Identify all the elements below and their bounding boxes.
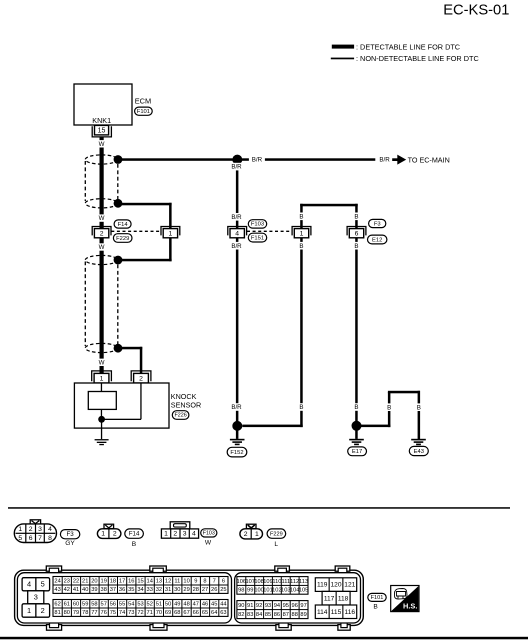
svg-text:41: 41 [73, 587, 79, 593]
svg-text:26: 26 [211, 587, 217, 593]
knock sensor pin 1 box [94, 373, 109, 383]
svg-text:39: 39 [91, 587, 97, 593]
svg-text:114: 114 [317, 609, 328, 616]
svg-text:48: 48 [183, 602, 189, 608]
svg-text:SENSOR: SENSOR [171, 401, 201, 410]
svg-text:40: 40 [82, 587, 88, 593]
svg-text:42: 42 [64, 587, 70, 593]
svg-text:W: W [99, 359, 105, 366]
svg-text:2: 2 [100, 230, 104, 237]
svg-text:2: 2 [113, 531, 117, 538]
shield ellipse top of lower section [85, 255, 117, 264]
svg-text:73: 73 [128, 610, 134, 616]
dashed link connector 2 to connector 1 [111, 230, 161, 232]
svg-text:95: 95 [283, 603, 289, 609]
svg-text:45: 45 [211, 602, 217, 608]
svg-text:B/R: B/R [231, 404, 242, 411]
svg-text:77: 77 [91, 610, 97, 616]
connector oval F101 at ECM [135, 107, 153, 115]
connector view F103 4-pin [161, 522, 198, 538]
svg-text:W: W [99, 215, 105, 222]
svg-text:6: 6 [355, 230, 359, 237]
svg-text:110: 110 [272, 579, 281, 585]
svg-text:64: 64 [211, 610, 217, 616]
svg-text:34: 34 [137, 587, 143, 593]
svg-text:50: 50 [165, 602, 171, 608]
svg-text:11: 11 [174, 579, 180, 585]
svg-text:H.S.: H.S. [403, 602, 417, 611]
svg-text:18: 18 [110, 579, 116, 585]
ECM connector left grid upper rows 24-6 43-25 [53, 577, 228, 594]
svg-text:87: 87 [283, 612, 289, 618]
svg-text:33: 33 [147, 587, 153, 593]
svg-text:25: 25 [220, 587, 226, 593]
ECM pin 15 box [95, 125, 109, 134]
svg-text:111: 111 [281, 579, 290, 585]
svg-text:EC-KS-01: EC-KS-01 [443, 3, 509, 19]
svg-text:2: 2 [29, 526, 33, 533]
svg-text:1: 1 [255, 531, 259, 538]
svg-text:70: 70 [156, 610, 162, 616]
svg-text:E12: E12 [372, 237, 382, 243]
ECM connector cell 3 [28, 591, 44, 604]
svg-text:112: 112 [290, 579, 299, 585]
title EC-KS-01 [443, 3, 509, 19]
svg-text:W: W [99, 141, 105, 148]
svg-text:22: 22 [73, 579, 79, 585]
svg-text:F229: F229 [270, 531, 283, 537]
svg-text:F151: F151 [251, 235, 264, 241]
svg-text:B: B [354, 243, 358, 250]
label W on thick wire 4 [97, 359, 107, 367]
svg-text:56: 56 [110, 602, 116, 608]
knock sensor internal wire junction to pin 2 [102, 383, 142, 420]
svg-text:52: 52 [147, 602, 153, 608]
label TO EC-MAIN [408, 155, 450, 164]
wire E17 junction to ground E43 [357, 391, 421, 440]
svg-text:98: 98 [238, 588, 244, 594]
svg-text:1: 1 [164, 531, 168, 538]
label B below connector 1 [298, 242, 306, 250]
svg-text:13: 13 [156, 579, 162, 585]
svg-text:B: B [299, 213, 303, 220]
svg-text:15: 15 [98, 127, 106, 134]
svg-text:B: B [373, 604, 378, 611]
wire W thick ECM to knock sensor pin 1 [100, 137, 104, 374]
svg-text:3: 3 [38, 526, 42, 533]
ECM pin 15 bracket [92, 126, 111, 137]
svg-text:GY: GY [65, 540, 75, 547]
ground oval E17 [348, 447, 367, 456]
connector 1 of F14/F229 [161, 227, 180, 238]
knock sensor element wire from pin 1 [101, 383, 102, 392]
svg-text:81: 81 [54, 610, 60, 616]
H.S. hand-symbol logo [391, 586, 419, 612]
label B/R before arrow [377, 155, 394, 164]
separator line [8, 507, 510, 509]
ground symbol E17 [349, 426, 364, 445]
svg-text:B: B [299, 243, 303, 250]
ECM connector shell top tab 2 [150, 566, 167, 573]
svg-text:7: 7 [213, 579, 216, 585]
oval F151 [248, 233, 266, 242]
legend detectable line sample [332, 45, 354, 49]
svg-text:9: 9 [194, 579, 197, 585]
svg-text:F3: F3 [66, 531, 74, 538]
label B above F152 junction [298, 403, 306, 411]
ECM connector cells 114 115 116 [315, 605, 356, 619]
wire shield tie to connector 1 [118, 203, 172, 229]
svg-text:84: 84 [256, 612, 262, 618]
svg-text:99: 99 [247, 588, 253, 594]
svg-text:2: 2 [139, 375, 143, 382]
svg-text:F152: F152 [230, 450, 243, 456]
svg-text:117: 117 [324, 595, 335, 602]
svg-text:B: B [354, 213, 358, 220]
svg-text:113: 113 [299, 579, 308, 585]
label B/R above connector 4 [230, 213, 244, 221]
KNK1 pin name [92, 116, 111, 125]
svg-text:43: 43 [54, 587, 60, 593]
label W on thick wire 2 [97, 214, 107, 222]
wire lower shield to knock sensor pin 2 [118, 347, 142, 374]
label B wire color F14 [132, 541, 137, 548]
svg-text:1: 1 [100, 375, 104, 382]
oval F101 view label [368, 593, 386, 601]
svg-text:17: 17 [119, 579, 125, 585]
svg-text:1: 1 [300, 230, 304, 237]
svg-text:61: 61 [64, 602, 70, 608]
label B above connector 6 [353, 213, 361, 221]
ECM connector left shell inner [17, 573, 231, 623]
svg-text:83: 83 [247, 612, 253, 618]
svg-text:37: 37 [110, 587, 116, 593]
label B on E43 branch right [415, 403, 423, 411]
svg-text:119: 119 [317, 582, 328, 589]
ECM connector right grid upper rows 106-113 98-105 [237, 577, 309, 595]
svg-text:2: 2 [244, 531, 248, 538]
svg-text:74: 74 [119, 610, 125, 616]
ECM connector cells 1 2 [22, 604, 49, 617]
label B above ground E17 [353, 403, 361, 411]
ground oval F152 [227, 447, 247, 457]
connector 2 of F14/F229 [92, 227, 111, 238]
ECM connector shell bottom tab 1 [47, 623, 62, 631]
svg-text:63: 63 [220, 610, 226, 616]
svg-text:1: 1 [18, 526, 22, 533]
ground symbol E43 [411, 439, 426, 445]
svg-text:120: 120 [330, 582, 341, 589]
svg-text:F103: F103 [203, 531, 215, 537]
oval F14 [114, 220, 131, 228]
junction dot shield lower-top [114, 256, 123, 265]
ECM connector cells 119 120 121 [315, 578, 356, 592]
knock sensor pin 2 bracket [131, 371, 151, 381]
svg-text:44: 44 [220, 602, 226, 608]
connector view F3 8-pin [14, 520, 56, 543]
svg-text:F226: F226 [174, 413, 186, 419]
svg-text:71: 71 [147, 610, 153, 616]
svg-text:20: 20 [91, 579, 97, 585]
svg-text:1: 1 [101, 531, 105, 538]
ECM connector shell bottom tab 3 [276, 623, 291, 631]
svg-text:10: 10 [183, 579, 189, 585]
svg-text:89: 89 [300, 612, 306, 618]
svg-text:32: 32 [156, 587, 162, 593]
svg-text:68: 68 [174, 610, 180, 616]
svg-text:31: 31 [165, 587, 171, 593]
svg-text:116: 116 [345, 609, 356, 616]
svg-text:19: 19 [101, 579, 107, 585]
svg-text:21: 21 [82, 579, 88, 585]
svg-text:115: 115 [331, 609, 342, 616]
ECM label [135, 96, 151, 105]
svg-text:F101: F101 [371, 595, 384, 601]
svg-text:29: 29 [183, 587, 189, 593]
svg-text:B: B [354, 404, 358, 411]
svg-text:16: 16 [128, 579, 134, 585]
knock sensor internal wire to case ground [101, 419, 102, 439]
svg-text:B/R: B/R [231, 214, 242, 221]
svg-text:51: 51 [156, 602, 162, 608]
knock sensor pin 1 bracket [92, 371, 112, 381]
wire B/R shield junction to EC-MAIN [118, 158, 375, 161]
svg-text:B: B [299, 404, 303, 411]
svg-text:B: B [417, 404, 421, 411]
svg-text:23: 23 [64, 579, 70, 585]
svg-text:ECM: ECM [135, 96, 151, 105]
svg-text:65: 65 [202, 610, 208, 616]
wire bracket over connectors 1 and 6 [300, 204, 358, 229]
svg-text:91: 91 [247, 603, 253, 609]
svg-text:E17: E17 [352, 449, 362, 455]
oval F14 view label [125, 529, 144, 538]
svg-text:4: 4 [27, 580, 31, 589]
svg-text:KNK1: KNK1 [92, 116, 111, 125]
svg-text:L: L [274, 541, 278, 548]
svg-text:B/R: B/R [252, 157, 263, 164]
svg-text:79: 79 [73, 610, 79, 616]
knock sensor box [74, 383, 169, 428]
knock sensor element box [88, 392, 116, 410]
shield cylinder upper dashed side left [84, 161, 86, 201]
svg-text:80: 80 [64, 610, 70, 616]
svg-text:67: 67 [183, 610, 189, 616]
dashed link connector 4 to connector 1 right [247, 230, 292, 232]
svg-text:62: 62 [54, 602, 60, 608]
svg-text:24: 24 [54, 579, 60, 585]
ground oval E43 [409, 446, 428, 455]
oval F103 [248, 220, 266, 228]
svg-text:60: 60 [73, 602, 79, 608]
knock sensor internal wire element to junction [101, 409, 102, 419]
ECM connector shell top tab 3 [275, 566, 290, 573]
wire B connector 1 to F152 junction [242, 238, 302, 427]
ground symbol knock sensor [95, 439, 109, 445]
connector 4 of F103/F151 [228, 227, 247, 238]
wire B connector 6 to ground E17 [355, 238, 358, 426]
svg-text:88: 88 [292, 612, 298, 618]
svg-text:55: 55 [119, 602, 125, 608]
svg-text:14: 14 [147, 579, 153, 585]
svg-text:6: 6 [222, 579, 225, 585]
svg-text:6: 6 [29, 535, 33, 542]
label B wire color F101 [373, 604, 378, 611]
svg-text:36: 36 [119, 587, 125, 593]
svg-text:15: 15 [137, 579, 143, 585]
svg-text:TO EC-MAIN: TO EC-MAIN [408, 155, 450, 164]
junction dot B/R tap [232, 155, 242, 165]
svg-text:F14: F14 [129, 531, 140, 538]
svg-text:92: 92 [256, 603, 262, 609]
label B/R on EC-MAIN line [249, 155, 265, 163]
svg-text:7: 7 [38, 535, 42, 542]
svg-text:57: 57 [101, 602, 107, 608]
arrow to EC-MAIN [392, 155, 406, 165]
svg-text:96: 96 [292, 603, 298, 609]
ECM connector left grid lower rows 62-44 81-63 [53, 600, 228, 617]
connector view F229 2-pin [240, 524, 263, 539]
svg-text:W: W [99, 244, 105, 251]
junction dot ground F152 [232, 421, 242, 431]
label B/R above ground F152 [230, 403, 244, 411]
svg-text:3: 3 [183, 531, 187, 538]
oval F103 view label [201, 529, 217, 537]
svg-text:B: B [132, 541, 137, 548]
wire B/R connector 4 to ground F152 [236, 238, 239, 426]
svg-text:1: 1 [169, 230, 173, 237]
ECM connector shell top tab 4 [335, 566, 350, 573]
ECM connector cells 4 5 [22, 578, 49, 591]
label B/R below tap [230, 163, 244, 171]
label KNOCK SENSOR [171, 392, 201, 410]
ECM connector shell top tab 1 [46, 566, 61, 573]
svg-text:2: 2 [41, 606, 45, 615]
svg-text:4: 4 [48, 526, 52, 533]
svg-text:KNOCK: KNOCK [171, 392, 197, 401]
label B below connector 6 [353, 242, 361, 250]
svg-text:28: 28 [193, 587, 199, 593]
svg-text:30: 30 [174, 587, 180, 593]
oval F3 view label [60, 530, 79, 539]
label B on E43 branch left [385, 403, 393, 411]
label B above connector 1 [298, 213, 306, 221]
svg-text:94: 94 [274, 603, 280, 609]
ECM connector right shell inner [235, 573, 361, 623]
svg-text:F14: F14 [118, 222, 129, 228]
shield ellipse bottom of upper section [85, 199, 117, 208]
svg-text:47: 47 [193, 602, 199, 608]
label GY wire color [65, 540, 75, 547]
svg-text:4: 4 [192, 531, 196, 538]
svg-text:8: 8 [48, 535, 52, 542]
label L wire color F229 [274, 541, 278, 548]
svg-text:B/R: B/R [379, 157, 390, 164]
svg-text:: DETECTABLE LINE FOR DTC: : DETECTABLE LINE FOR DTC [356, 43, 460, 52]
svg-text:72: 72 [137, 610, 143, 616]
label W wire color F103 [205, 540, 212, 547]
oval F229 [113, 234, 132, 243]
svg-text:86: 86 [274, 612, 280, 618]
svg-text:78: 78 [82, 610, 88, 616]
svg-text:12: 12 [165, 579, 171, 585]
junction dot shield top [114, 155, 123, 164]
knock sensor internal junction dot [98, 416, 105, 423]
svg-text:4: 4 [235, 230, 239, 237]
legend detectable text [356, 43, 460, 52]
label B/R below connector 4 [230, 242, 244, 250]
oval F226 at knock sensor [172, 411, 189, 420]
wire connector 1 down to lower shield [118, 238, 172, 261]
svg-text:F3: F3 [374, 221, 381, 227]
svg-text:53: 53 [137, 602, 143, 608]
svg-text:B: B [387, 404, 391, 411]
junction dot shield upper-bottom [114, 199, 123, 208]
svg-text:F229: F229 [116, 236, 129, 242]
svg-text:3: 3 [34, 593, 38, 602]
shield ellipse bottom of lower section [85, 343, 117, 352]
label W on thick wire 1 [97, 140, 107, 148]
shield cylinder upper dashed side right [117, 164, 119, 200]
oval F229 view label [267, 529, 286, 538]
svg-text:E43: E43 [414, 449, 424, 455]
svg-text:5: 5 [18, 535, 22, 542]
ECM connector shell outer [15, 570, 364, 625]
connector 1 of F3/E12 [292, 227, 311, 238]
svg-text:105: 105 [299, 588, 309, 594]
svg-text:W: W [205, 540, 212, 547]
connector 6 of F3/E12 [347, 227, 366, 238]
svg-text:F103: F103 [251, 222, 264, 228]
label W on thick wire 3 [97, 243, 107, 251]
legend non-detectable line sample [331, 58, 354, 60]
junction dot shield lower-bottom [114, 344, 123, 353]
svg-text:90: 90 [238, 603, 244, 609]
oval F3 [369, 219, 386, 227]
ECM connector shell bottom tab 2 [150, 623, 167, 631]
svg-text:27: 27 [202, 587, 208, 593]
svg-text:58: 58 [91, 602, 97, 608]
ECM connector shell bottom tab 4 [338, 623, 350, 631]
ECM connector cells 117 118 [322, 591, 350, 605]
svg-text:1: 1 [27, 606, 31, 615]
knock sensor pin 2 box [134, 373, 149, 383]
shield cylinder lower dashed side left [84, 262, 86, 347]
wire B/R EC-MAIN line to connector 4 [236, 160, 239, 229]
legend non-detectable text [356, 54, 479, 63]
svg-text:69: 69 [165, 610, 171, 616]
svg-text:66: 66 [193, 610, 199, 616]
svg-text:38: 38 [101, 587, 107, 593]
connector view F14 2-pin [97, 524, 121, 538]
oval E12 [368, 235, 387, 244]
svg-text:35: 35 [128, 587, 134, 593]
svg-text:54: 54 [128, 602, 134, 608]
svg-text:93: 93 [265, 603, 271, 609]
svg-text:2: 2 [173, 531, 177, 538]
svg-text:B/R: B/R [231, 243, 242, 250]
svg-text:8: 8 [203, 579, 206, 585]
svg-text:76: 76 [101, 610, 107, 616]
svg-text:75: 75 [110, 610, 116, 616]
ECM connector right grid lower rows 90-97 82-89 [237, 601, 308, 619]
svg-text:85: 85 [265, 612, 271, 618]
shield cylinder lower dashed side right [117, 265, 119, 345]
ECM box [74, 84, 132, 125]
svg-text:121: 121 [344, 582, 355, 589]
svg-text:82: 82 [238, 612, 244, 618]
bottom page edge bar [0, 637, 528, 640]
